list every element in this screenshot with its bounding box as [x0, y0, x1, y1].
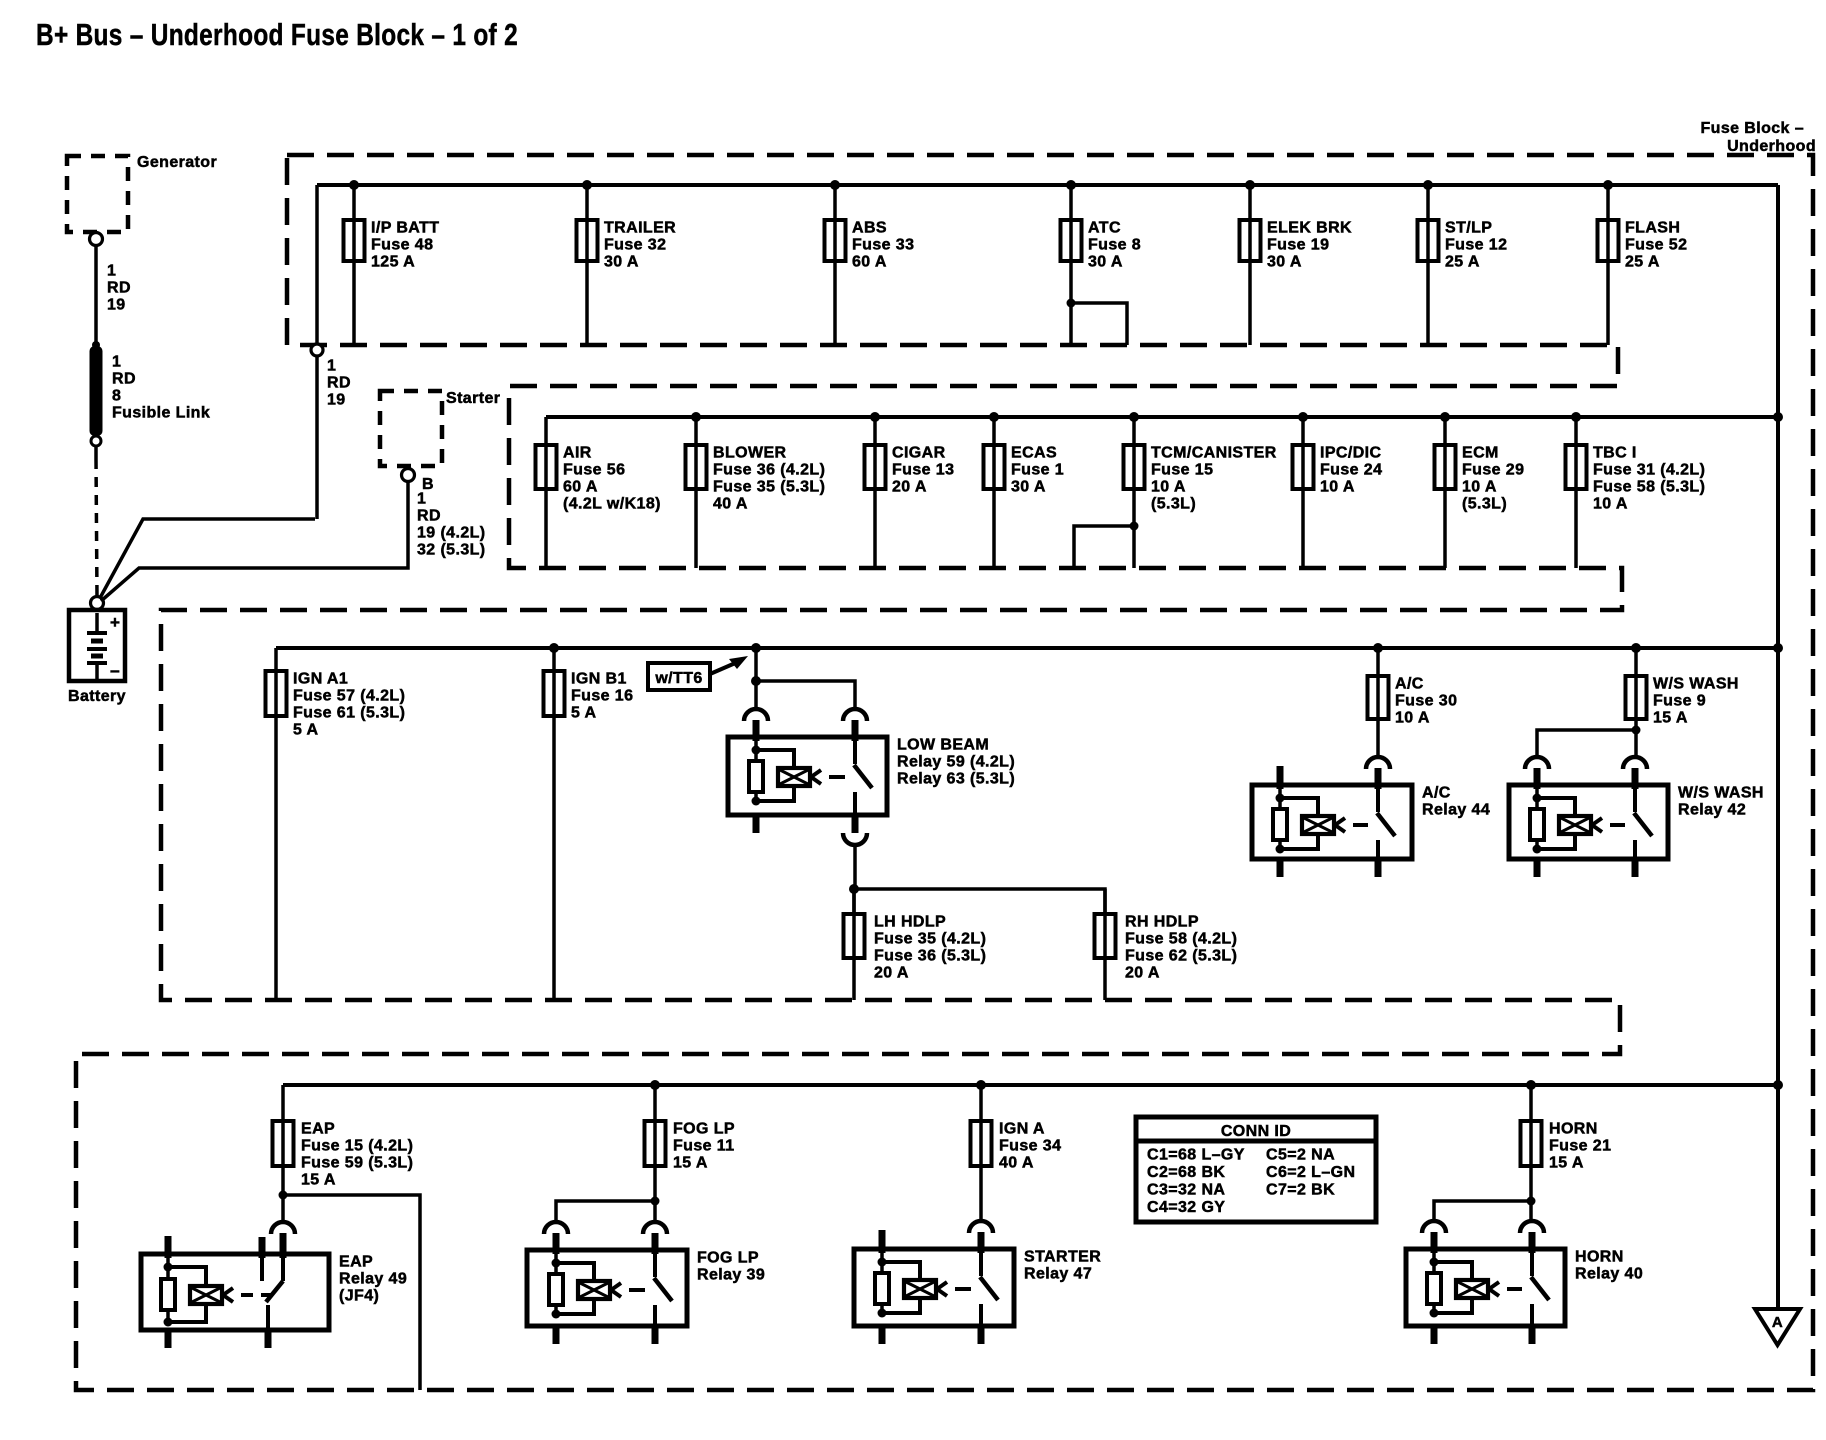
svg-text:C6=2 L–GN: C6=2 L–GN — [1266, 1164, 1355, 1181]
svg-text:Fuse 62 (5.3L): Fuse 62 (5.3L) — [1125, 948, 1237, 965]
fuse: LH HDLP fuses 35/36 — [844, 889, 987, 1000]
svg-text:30 A: 30 A — [1088, 254, 1123, 271]
fuse: ECM fuse 29 — [1435, 412, 1525, 568]
svg-text:B+ Bus – Underhood Fuse Block: B+ Bus – Underhood Fuse Block – 1 of 2 — [36, 17, 518, 52]
svg-text:RD: RD — [112, 371, 136, 388]
svg-text:C1=68 L–GY: C1=68 L–GY — [1147, 1147, 1245, 1164]
svg-text:Fuse 34: Fuse 34 — [999, 1138, 1061, 1155]
svg-text:60 A: 60 A — [852, 254, 887, 271]
svg-text:(5.3L): (5.3L) — [1462, 496, 1507, 513]
svg-text:EAP: EAP — [301, 1121, 335, 1138]
svg-text:Fuse 35 (4.2L): Fuse 35 (4.2L) — [874, 931, 986, 948]
svg-text:Starter: Starter — [446, 390, 500, 407]
wire: bus3 to low beam relay — [751, 648, 855, 710]
junction right bus4 — [1773, 1080, 1783, 1090]
svg-text:30 A: 30 A — [1267, 254, 1302, 271]
svg-text:30 A: 30 A — [1011, 479, 1046, 496]
svg-text:C7=2 BK: C7=2 BK — [1266, 1182, 1335, 1199]
connector circle B at starter — [402, 469, 434, 494]
svg-text:Fuse 11: Fuse 11 — [673, 1138, 735, 1155]
relay: FOG LP relay 39 — [527, 1222, 765, 1344]
fusible link — [90, 341, 103, 446]
svg-text:ELEK BRK: ELEK BRK — [1267, 220, 1352, 237]
battery — [69, 610, 125, 681]
svg-text:20 A: 20 A — [892, 479, 927, 496]
svg-text:15 A: 15 A — [673, 1155, 708, 1172]
wire: TCM jog — [1074, 522, 1139, 569]
junction right bus3 — [1773, 643, 1783, 653]
wire: IGN A fuse to starter relay — [979, 1166, 983, 1221]
wire: low beam to headlamp fuses — [849, 845, 1105, 914]
svg-text:IPC/DIC: IPC/DIC — [1320, 445, 1382, 462]
svg-text:ATC: ATC — [1088, 220, 1121, 237]
svg-text:Fuse 8: Fuse 8 — [1088, 237, 1141, 254]
svg-text:Fuse 19: Fuse 19 — [1267, 237, 1329, 254]
svg-text:Fuse 36 (5.3L): Fuse 36 (5.3L) — [874, 948, 986, 965]
svg-text:Fuse 59 (5.3L): Fuse 59 (5.3L) — [301, 1155, 413, 1172]
svg-text:Fuse 15: Fuse 15 — [1151, 462, 1213, 479]
fuse: TCM/CANISTER fuse 15 — [1124, 412, 1277, 568]
wire bus1 corner down to connector — [315, 185, 319, 345]
svg-text:5 A: 5 A — [571, 705, 597, 722]
svg-text:Relay 40: Relay 40 — [1575, 1266, 1643, 1283]
svg-text:LH HDLP: LH HDLP — [874, 914, 946, 931]
fuse: W/S WASH fuse 9 — [1626, 643, 1739, 730]
svg-text:Underhood: Underhood — [1727, 138, 1816, 155]
svg-text:A/C: A/C — [1395, 676, 1424, 693]
svg-text:+: + — [110, 613, 120, 632]
bus right vertical — [1776, 185, 1780, 1309]
flag w/TT6 — [648, 656, 748, 690]
svg-text:Relay 59 (4.2L): Relay 59 (4.2L) — [897, 754, 1015, 771]
fuse: FOG LP fuse 11 — [645, 1080, 735, 1201]
svg-text:Fusible Link: Fusible Link — [112, 405, 210, 422]
svg-text:−: − — [110, 662, 120, 681]
svg-text:30 A: 30 A — [604, 254, 639, 271]
fuse: A/C fuse 30 — [1368, 643, 1458, 758]
fuse: IGN A fuse 34 — [971, 1080, 1062, 1172]
svg-text:IGN B1: IGN B1 — [571, 671, 627, 688]
fuse: BLOWER fuses 36/35 — [686, 412, 826, 568]
fuse: ECAS fuse 1 — [984, 412, 1065, 568]
svg-text:125 A: 125 A — [371, 254, 415, 271]
svg-text:A: A — [1772, 1314, 1783, 1331]
wire (dashed) fusible link to battery — [96, 447, 97, 597]
svg-text:CONN ID: CONN ID — [1221, 1123, 1291, 1140]
svg-text:40 A: 40 A — [999, 1155, 1034, 1172]
fuse: ABS fuse 33 — [825, 180, 915, 345]
svg-text:(JF4): (JF4) — [339, 1288, 379, 1305]
svg-text:C5=2 NA: C5=2 NA — [1266, 1147, 1335, 1164]
fuse: EAP fuses 15/59 — [273, 1085, 414, 1195]
wire label 1 RD 19 — [327, 358, 351, 409]
svg-text:I/P BATT: I/P BATT — [371, 220, 439, 237]
svg-text:10 A: 10 A — [1462, 479, 1497, 496]
svg-text:19 (4.2L): 19 (4.2L) — [417, 525, 486, 542]
off-page connector A — [1755, 1309, 1800, 1345]
svg-text:Fuse 12: Fuse 12 — [1445, 237, 1507, 254]
svg-text:TRAILER: TRAILER — [604, 220, 676, 237]
svg-text:RH HDLP: RH HDLP — [1125, 914, 1199, 931]
bus row1 (B+ feed) — [317, 183, 1778, 187]
label Fusible Link — [112, 354, 210, 422]
svg-text:HORN: HORN — [1549, 1121, 1598, 1138]
svg-text:Fuse 35 (5.3L): Fuse 35 (5.3L) — [713, 479, 825, 496]
wire label 1 RD 19(4.2L) 32(5.3L) — [417, 491, 486, 559]
wire: ATC jog — [1067, 299, 1128, 346]
svg-text:Relay 49: Relay 49 — [339, 1271, 407, 1288]
svg-text:Fuse 29: Fuse 29 — [1462, 462, 1524, 479]
svg-text:W/S WASH: W/S WASH — [1653, 676, 1739, 693]
svg-text:19: 19 — [327, 392, 346, 409]
svg-text:15 A: 15 A — [301, 1172, 336, 1189]
fuse: IGN B1 fuse 16 — [544, 643, 634, 1000]
svg-text:TCM/CANISTER: TCM/CANISTER — [1151, 445, 1277, 462]
junction right bus2 — [1773, 412, 1783, 422]
svg-text:(5.3L): (5.3L) — [1151, 496, 1196, 513]
wire battery to starter B — [101, 481, 408, 601]
bus row3 — [276, 646, 1778, 650]
svg-text:FOG LP: FOG LP — [697, 1250, 759, 1267]
svg-text:1: 1 — [327, 358, 336, 375]
svg-text:AIR: AIR — [563, 445, 592, 462]
svg-text:Fuse 48: Fuse 48 — [371, 237, 433, 254]
svg-text:Fuse 36 (4.2L): Fuse 36 (4.2L) — [713, 462, 825, 479]
svg-text:Fuse 9: Fuse 9 — [1653, 693, 1706, 710]
svg-text:Relay 47: Relay 47 — [1024, 1266, 1092, 1283]
svg-text:Fuse 32: Fuse 32 — [604, 237, 666, 254]
relay: W/S WASH relay 42 — [1509, 757, 1764, 877]
svg-text:HORN: HORN — [1575, 1249, 1624, 1266]
fuse: FLASH fuse 52 — [1598, 180, 1688, 345]
svg-text:1: 1 — [107, 263, 116, 280]
fuse: ELEK BRK fuse 19 — [1240, 180, 1353, 345]
svg-text:C2=68 BK: C2=68 BK — [1147, 1164, 1225, 1181]
relay: A/C relay 44 — [1252, 757, 1490, 877]
svg-text:Battery: Battery — [68, 688, 126, 705]
starter (dashed box) — [380, 390, 500, 466]
svg-text:20 A: 20 A — [874, 965, 909, 982]
relay: EAP relay 49 — [141, 1222, 407, 1348]
svg-text:Fuse 16: Fuse 16 — [571, 688, 633, 705]
svg-text:15 A: 15 A — [1653, 710, 1688, 727]
relay: HORN relay 40 — [1406, 1221, 1643, 1344]
svg-text:ECM: ECM — [1462, 445, 1499, 462]
bus row2 — [546, 415, 1778, 419]
svg-text:Fuse 13: Fuse 13 — [892, 462, 954, 479]
connector circle at battery — [91, 597, 104, 610]
svg-text:19: 19 — [107, 297, 126, 314]
svg-text:60 A: 60 A — [563, 479, 598, 496]
svg-text:Fuse 58 (4.2L): Fuse 58 (4.2L) — [1125, 931, 1237, 948]
wire: FOG LP fuse to relay — [556, 1197, 660, 1223]
svg-text:Fuse 61 (5.3L): Fuse 61 (5.3L) — [293, 705, 405, 722]
svg-text:EAP: EAP — [339, 1254, 373, 1271]
svg-text:w/TT6: w/TT6 — [654, 670, 702, 687]
svg-text:1: 1 — [112, 354, 121, 371]
svg-text:ST/LP: ST/LP — [1445, 220, 1492, 237]
svg-text:Relay 63 (5.3L): Relay 63 (5.3L) — [897, 771, 1015, 788]
svg-text:ABS: ABS — [852, 220, 887, 237]
svg-text:W/S WASH: W/S WASH — [1678, 785, 1764, 802]
relay: STARTER relay 47 — [854, 1221, 1101, 1344]
svg-text:LOW BEAM: LOW BEAM — [897, 737, 989, 754]
svg-text:Fuse 56: Fuse 56 — [563, 462, 625, 479]
svg-text:40 A: 40 A — [713, 496, 748, 513]
title — [36, 17, 518, 52]
svg-text:8: 8 — [112, 388, 121, 405]
fuse: HORN fuse 21 — [1521, 1080, 1612, 1201]
svg-text:10 A: 10 A — [1593, 496, 1628, 513]
svg-text:BLOWER: BLOWER — [713, 445, 787, 462]
fuse: TBC I fuses 31/58 — [1566, 412, 1706, 568]
svg-text:1: 1 — [417, 491, 426, 508]
wire battery to bus1 (via connector) — [100, 356, 317, 598]
svg-text:Fuse 33: Fuse 33 — [852, 237, 914, 254]
svg-text:Fuse 30: Fuse 30 — [1395, 693, 1457, 710]
wire label 1 RD 19 (generator) — [107, 263, 131, 314]
fuse: IGN A1 fuses 57/61 — [266, 648, 406, 1000]
svg-text:10 A: 10 A — [1151, 479, 1186, 496]
svg-text:RD: RD — [417, 508, 441, 525]
svg-text:A/C: A/C — [1422, 785, 1451, 802]
label: Fuse Block - Underhood — [1700, 120, 1816, 155]
svg-text:IGN A: IGN A — [999, 1121, 1045, 1138]
fuse: RH HDLP fuses 58/62 — [1095, 889, 1238, 1000]
svg-text:20 A: 20 A — [1125, 965, 1160, 982]
svg-text:Fuse 21: Fuse 21 — [1549, 1138, 1611, 1155]
svg-text:Fuse 58 (5.3L): Fuse 58 (5.3L) — [1593, 479, 1705, 496]
svg-text:5 A: 5 A — [293, 722, 319, 739]
svg-text:(4.2L w/K18): (4.2L w/K18) — [563, 496, 661, 513]
fuse: AIR fuse 56 — [536, 417, 661, 568]
svg-text:Fuse 52: Fuse 52 — [1625, 237, 1687, 254]
connector circle 1 RD 19 (under I/P BATT) — [311, 344, 323, 356]
svg-text:10 A: 10 A — [1395, 710, 1430, 727]
svg-text:25 A: 25 A — [1625, 254, 1660, 271]
junction: low beam feed at bus3 — [751, 643, 761, 653]
wire generator to fusible link — [94, 245, 98, 345]
svg-text:10 A: 10 A — [1320, 479, 1355, 496]
wire: HORN fuse to relay — [1434, 1197, 1536, 1222]
bus row4 — [283, 1083, 1778, 1087]
svg-text:RD: RD — [327, 375, 351, 392]
svg-text:Fuse 24: Fuse 24 — [1320, 462, 1382, 479]
svg-text:RD: RD — [107, 280, 131, 297]
fuse: ST/LP fuse 12 — [1418, 180, 1508, 345]
svg-text:IGN A1: IGN A1 — [293, 671, 348, 688]
fuse: CIGAR fuse 13 — [865, 412, 955, 568]
svg-text:Fuse Block –: Fuse Block – — [1700, 120, 1804, 137]
svg-text:FOG LP: FOG LP — [673, 1121, 735, 1138]
svg-text:FLASH: FLASH — [1625, 220, 1680, 237]
svg-text:ECAS: ECAS — [1011, 445, 1057, 462]
wire: W/S WASH fuse to relay — [1537, 726, 1641, 759]
generator (dashed box) — [67, 154, 217, 232]
fuse: IPC/DIC fuse 24 — [1293, 412, 1383, 568]
svg-text:STARTER: STARTER — [1024, 1249, 1101, 1266]
connector circle at generator — [90, 233, 103, 246]
svg-text:Fuse 31 (4.2L): Fuse 31 (4.2L) — [1593, 462, 1705, 479]
fuse: TRAILER fuse 32 — [577, 180, 677, 345]
fuse: I/P BATT fuse 48 — [344, 180, 440, 345]
svg-text:Generator: Generator — [137, 154, 217, 171]
label Battery — [68, 688, 126, 705]
svg-text:C3=32 NA: C3=32 NA — [1147, 1182, 1225, 1199]
svg-text:Relay 42: Relay 42 — [1678, 802, 1746, 819]
wire: EAP branch to block edge — [279, 1191, 421, 1391]
svg-text:Fuse 1: Fuse 1 — [1011, 462, 1064, 479]
svg-text:C4=32 GY: C4=32 GY — [1147, 1199, 1225, 1216]
svg-text:Fuse 57 (4.2L): Fuse 57 (4.2L) — [293, 688, 405, 705]
svg-text:Relay 44: Relay 44 — [1422, 802, 1490, 819]
svg-text:TBC I: TBC I — [1593, 445, 1637, 462]
connector arc below low beam relay — [843, 833, 867, 845]
svg-text:32 (5.3L): 32 (5.3L) — [417, 542, 486, 559]
svg-text:CIGAR: CIGAR — [892, 445, 946, 462]
svg-text:15 A: 15 A — [1549, 1155, 1584, 1172]
svg-text:Fuse 15 (4.2L): Fuse 15 (4.2L) — [301, 1138, 413, 1155]
CONN ID table — [1136, 1117, 1376, 1222]
svg-text:25 A: 25 A — [1445, 254, 1480, 271]
svg-text:Relay 39: Relay 39 — [697, 1267, 765, 1284]
fuse: ATC fuse 8 — [1061, 180, 1142, 345]
relay: LOW BEAM relay 59/63 — [728, 709, 1015, 833]
